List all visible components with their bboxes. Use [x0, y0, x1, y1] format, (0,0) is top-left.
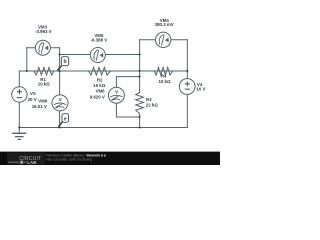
- svg-text:http://circuitlab.com/c/cvs5ua: http://circuitlab.com/c/cvs5uahg: [46, 158, 92, 162]
- svg-text:10 kΩ: 10 kΩ: [158, 79, 171, 84]
- svg-text:-3.993 V: -3.993 V: [35, 29, 52, 34]
- svg-text:R4: R4: [161, 74, 167, 79]
- svg-text:VS: VS: [30, 91, 36, 96]
- svg-text:16.01 V: 16.01 V: [32, 104, 47, 109]
- svg-text:9.620 V: 9.620 V: [90, 95, 105, 100]
- svg-text:LAB: LAB: [27, 160, 36, 165]
- svg-text:10 kΩ: 10 kΩ: [38, 82, 51, 87]
- svg-text:16 kΩ: 16 kΩ: [93, 83, 106, 88]
- svg-text:380.3 mV: 380.3 mV: [155, 22, 174, 27]
- svg-text:b: b: [63, 59, 66, 65]
- svg-text:e: e: [64, 117, 67, 123]
- svg-text:-6.388 V: -6.388 V: [91, 37, 108, 42]
- svg-text:VM9: VM9: [38, 98, 48, 103]
- svg-text:R3: R3: [146, 97, 152, 102]
- svg-text:20 V: 20 V: [28, 97, 37, 102]
- svg-text:10 V: 10 V: [196, 87, 205, 92]
- svg-text:R2: R2: [97, 78, 103, 83]
- svg-text:VM6: VM6: [96, 89, 106, 94]
- svg-text:22 kΩ: 22 kΩ: [146, 102, 159, 107]
